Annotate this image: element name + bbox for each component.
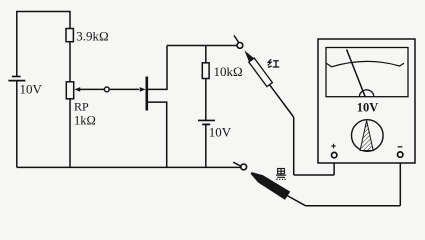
wire R1 to RP — [69, 42, 71, 82]
wire R2 top lead — [205, 46, 207, 63]
wire red probe tail diagonal — [270, 85, 294, 117]
red probe — [242, 48, 273, 86]
resistor R1 — [66, 29, 73, 42]
wire left rail lower — [16, 81, 18, 168]
black probe terminal tick — [233, 162, 240, 166]
node gate open circle — [104, 87, 109, 92]
red probe node circle — [237, 43, 243, 49]
wire red vertical — [293, 117, 295, 175]
plus terminal circle — [332, 152, 337, 157]
Q1 source lead — [147, 102, 167, 167]
dial pointer wedge — [360, 121, 373, 151]
svg-text:10V: 10V — [20, 82, 43, 97]
red probe terminal tick — [234, 35, 239, 42]
svg-text:RP: RP — [74, 100, 89, 114]
transistor Q1 gate bar — [146, 77, 149, 111]
range dial — [352, 120, 384, 152]
plus sign — [331, 144, 335, 148]
black probe node circle — [241, 164, 247, 170]
minus sign — [398, 146, 403, 148]
wire node to gate with arrow — [110, 87, 146, 92]
label hong (red) — [268, 59, 280, 67]
wire bottom rail — [17, 166, 241, 168]
potentiometer RP — [66, 82, 73, 99]
battery B1 — [8, 77, 25, 81]
Q1 drain lead — [147, 46, 167, 90]
meter face — [326, 48, 408, 97]
svg-text:1kΩ: 1kΩ — [74, 113, 96, 127]
svg-text:10V: 10V — [209, 125, 232, 140]
meter scale arc — [327, 61, 405, 66]
wire top-left rail — [17, 12, 70, 77]
black probe — [249, 169, 291, 200]
svg-text:3.9kΩ: 3.9kΩ — [76, 28, 108, 43]
wire B2 bottom — [205, 124, 207, 167]
wire up to plus terminal — [333, 158, 335, 175]
svg-text:10kΩ: 10kΩ — [214, 64, 243, 79]
wire red horizontal to plus — [294, 174, 334, 176]
wire RP bottom — [69, 99, 71, 168]
wire black probe tail — [287, 196, 305, 206]
wire R2 to B2 — [205, 79, 207, 121]
battery B2 — [198, 120, 215, 124]
multimeter outer box — [318, 39, 415, 163]
wire black horizontal — [306, 205, 401, 207]
minus terminal circle — [398, 152, 403, 157]
needle pivot — [359, 90, 373, 97]
resistor R2 — [202, 63, 209, 79]
svg-text:10V: 10V — [357, 101, 379, 115]
meter needle — [347, 50, 365, 97]
label hei (black) — [276, 169, 286, 181]
wire top rail to probe node — [167, 45, 238, 47]
wire up to minus terminal — [399, 158, 401, 206]
RP wiper arrow — [75, 87, 105, 92]
